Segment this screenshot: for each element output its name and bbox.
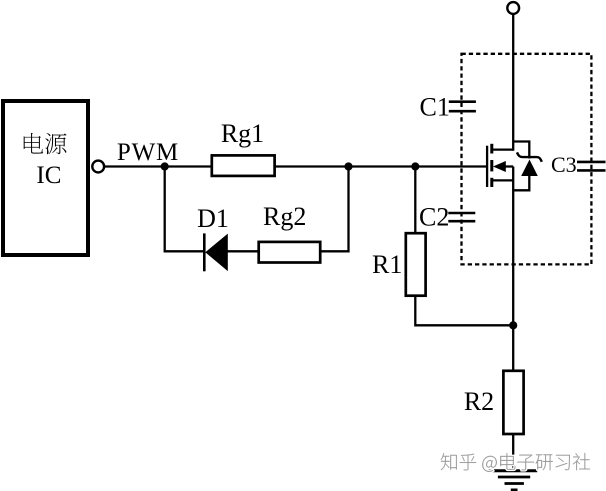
svg-text:C2: C2 [419, 203, 449, 232]
capacitor C1 [449, 102, 476, 112]
svg-text:Rg1: Rg1 [221, 119, 264, 148]
wire: D1 to Rg2 [227, 250, 258, 252]
wire: R1 bottom to source node [415, 296, 513, 326]
diode D1 [204, 233, 228, 271]
body diode cathode bar [517, 152, 542, 161]
wire: node down to R1 [414, 167, 416, 234]
body diode triangle [521, 160, 538, 177]
ground [489, 471, 538, 490]
wire: source vertical [512, 167, 514, 326]
PWM output terminal circle [92, 161, 104, 173]
svg-text:R1: R1 [372, 250, 402, 279]
svg-text:C3: C3 [551, 152, 577, 177]
svg-text:C1: C1 [420, 93, 450, 122]
power IC box [3, 101, 88, 255]
MOSFET Q1 drain lead [492, 148, 513, 150]
svg-text:IC: IC [36, 162, 61, 189]
watermark 知乎 @电子研习社 [441, 453, 590, 472]
wire: body diode top branch [513, 142, 529, 159]
svg-text:D1: D1 [197, 204, 229, 233]
resistor R2 [503, 371, 523, 434]
MOSFET Q1 source lead [492, 179, 513, 181]
resistor Rg1 [212, 155, 275, 176]
dashed MOSFET boundary box [462, 54, 592, 265]
wire: Rg1 to MOSFET gate [275, 165, 487, 167]
resistor R1 [406, 233, 426, 296]
MOSFET Q1 gate pole [486, 146, 488, 187]
wire: body diode bottom branch [513, 175, 529, 190]
top terminal circle [507, 2, 519, 14]
svg-text:Rg2: Rg2 [263, 202, 306, 231]
wire: R2 to ground [512, 434, 514, 470]
node: Rg2 branch rejoin [344, 162, 352, 170]
capacitor C3 [577, 162, 606, 171]
svg-text:R2: R2 [464, 387, 494, 416]
wire: top terminal to drain [512, 14, 514, 151]
node: source junction [509, 321, 517, 329]
wire: terminal to Rg1 [105, 165, 212, 167]
resistor Rg2 [259, 242, 321, 263]
wire: Rg2 up to main wire [322, 167, 349, 252]
node: R1 branch [411, 162, 419, 170]
node: PWM junction [161, 162, 169, 170]
wire: source node to R2 [512, 325, 514, 370]
MOSFET Q1 body lead with arrow [493, 161, 513, 172]
capacitor C2 [448, 213, 475, 221]
wire: left drop of lower branch [165, 167, 203, 252]
svg-text:PWM: PWM [117, 139, 179, 166]
MOSFET Q1 channel bars [490, 144, 493, 187]
